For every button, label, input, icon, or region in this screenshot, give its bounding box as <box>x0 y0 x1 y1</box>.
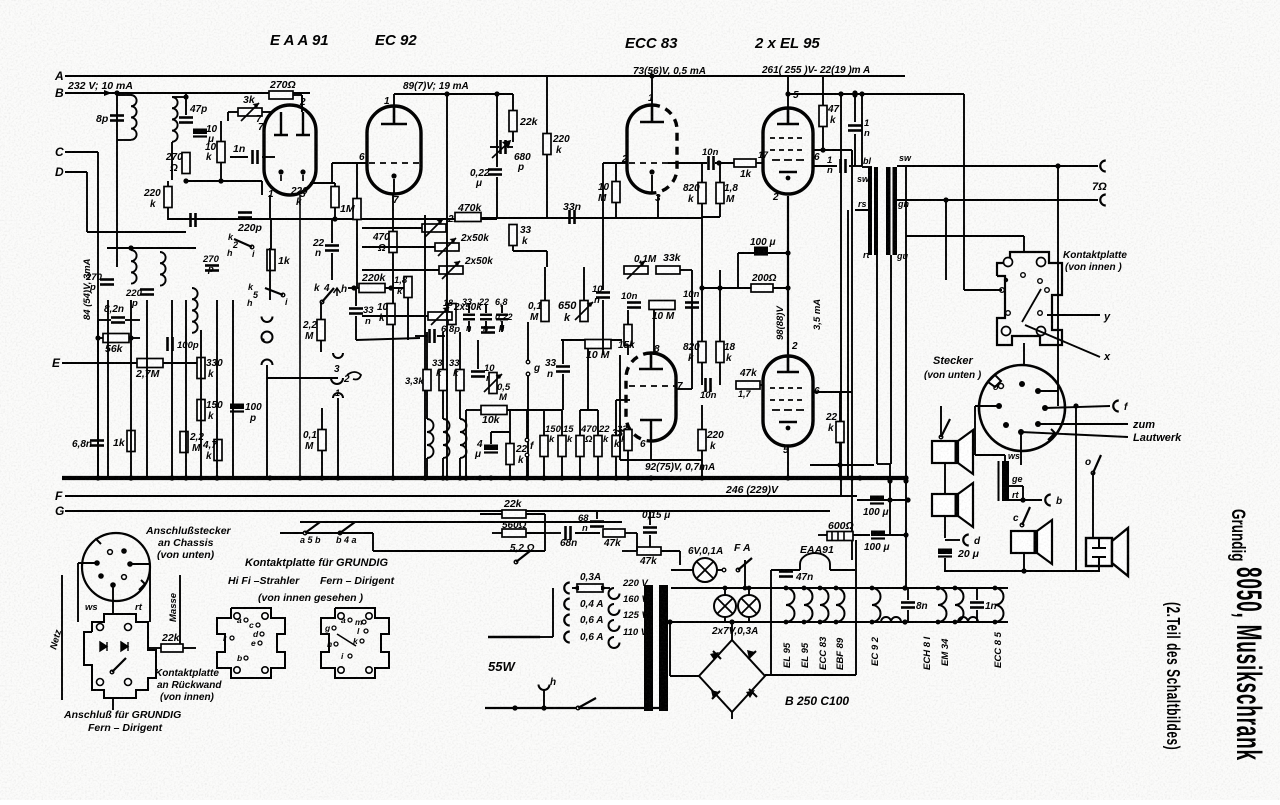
wire 47k e r <box>661 550 680 552</box>
lamp dial 2 <box>738 595 760 617</box>
capacitor 270p c <box>205 266 219 271</box>
resistor 1k S <box>267 250 275 271</box>
wire fuse r <box>603 587 610 589</box>
junction bus x616 <box>613 475 618 480</box>
wire D across <box>87 231 186 233</box>
wire 22k tone dn <box>509 465 511 478</box>
wire fuse l <box>572 587 577 589</box>
junction el95a k2 <box>785 285 790 290</box>
junction bus 217 <box>214 475 219 480</box>
heater ECH81 h bottom <box>936 620 941 625</box>
wire sg feed h <box>788 93 964 95</box>
heater ECC83 h bottom <box>818 620 823 625</box>
wire 1038 v <box>1038 390 1058 392</box>
capacitor 8.2n <box>111 318 125 323</box>
wire bank 0 dn <box>543 457 545 478</box>
contact plate pins big <box>1002 258 1046 336</box>
wire 100u line <box>738 252 788 254</box>
wire 447 v <box>446 94 448 478</box>
connector pin <box>1035 388 1041 394</box>
coil heater choke 1 <box>881 617 901 622</box>
wire bank tie4 <box>616 399 630 401</box>
transformer T-power core <box>644 585 668 711</box>
resistor 470ohm <box>389 232 397 253</box>
wire conn rt v <box>149 564 151 622</box>
resistor 47k sg <box>819 106 827 127</box>
diode D1 <box>100 642 107 651</box>
resistor 22M <box>317 320 325 341</box>
capacitor 1n g <box>841 159 846 173</box>
wire 497 v2 <box>496 177 498 217</box>
wire vdrop left 5 <box>200 330 202 476</box>
resistor 2.2M <box>180 432 188 453</box>
wire 220k down <box>167 208 169 220</box>
wire 33n k up <box>355 288 357 306</box>
wire 10n D l <box>668 162 707 164</box>
wire rail G <box>65 510 830 512</box>
wire o dn <box>1092 473 1094 538</box>
resistor 600 stripes <box>832 532 844 540</box>
wire eaa anode <box>301 95 303 107</box>
contact plate Rueckwand <box>84 614 156 698</box>
wire ec92 k dn <box>392 194 394 231</box>
wire 220k det2 up <box>334 183 336 187</box>
heater EL95 2 <box>804 588 813 622</box>
junction bus x270 <box>267 475 272 480</box>
jack ring <box>262 332 273 343</box>
wire 890 v <box>889 464 891 535</box>
wire 22n dn <box>331 253 333 280</box>
wire b drop 300a <box>301 95 303 112</box>
junction bus x906 <box>903 475 908 480</box>
wire 6.8p l <box>415 335 427 337</box>
wire rt b <box>1009 499 1042 501</box>
wire y465 <box>810 464 874 466</box>
resistor 10k tone <box>481 406 507 415</box>
capacitor 6.8n left <box>90 441 104 446</box>
wire 1058 v <box>1057 166 1059 406</box>
junction el95a k1 <box>785 250 790 255</box>
capacitor 10n B <box>627 303 641 308</box>
tube EL95b inner <box>777 356 799 372</box>
connector pin o <box>999 384 1004 389</box>
resistor 1M <box>353 199 361 220</box>
heater EBF89 h <box>836 588 845 622</box>
wire heater box bottom <box>765 674 856 676</box>
wire bank 3 dn <box>597 457 599 478</box>
wire 848 v <box>847 210 849 478</box>
junction bus x480 <box>477 475 482 480</box>
terminal tap <box>564 615 570 626</box>
tube EL95a U4 <box>763 108 813 194</box>
coil IF2 c <box>192 288 198 333</box>
wire bank 1 dn <box>561 457 563 478</box>
junction bus x598 <box>595 475 600 480</box>
wire ls3 dn <box>1023 553 1025 571</box>
wire 220k g2 r <box>385 287 405 289</box>
wire 22n row up <box>485 305 487 313</box>
wire 8n dn <box>907 610 909 622</box>
capacitor 100p osc <box>168 337 173 351</box>
wire bank 1 up <box>561 410 563 436</box>
wire g line <box>527 322 529 361</box>
contact plate HiFi pin <box>234 613 240 619</box>
wire col1 dn <box>442 458 444 478</box>
wire sw corner <box>372 533 374 551</box>
wire stecker zum <box>1038 423 1128 425</box>
contact plate Fern pin small <box>334 642 338 646</box>
wire 6,8n row dn <box>501 321 503 332</box>
resistor 33k bank <box>612 436 620 457</box>
junction B <box>114 90 119 95</box>
wire speaker line2 <box>897 199 1098 201</box>
wire 98 to bus <box>97 320 99 478</box>
arrow B <box>104 90 112 96</box>
junction 909 500 <box>905 497 910 502</box>
contact plate HiFi pin <box>262 613 268 619</box>
wire f line <box>526 410 528 439</box>
wire bridge dn <box>731 712 733 719</box>
wire vdrop left 6 <box>216 300 218 476</box>
wire 68n a r <box>575 532 600 534</box>
capacitor 10n C <box>685 303 699 308</box>
capacitor 47n h <box>779 572 793 577</box>
junction bus x131 <box>128 475 133 480</box>
wire col2 dn <box>459 458 461 478</box>
wire 8.2n r <box>125 319 140 321</box>
wire sw to right <box>373 550 545 552</box>
heater ECC83 h top <box>818 586 823 591</box>
title Grundig <box>1227 509 1249 561</box>
capacitor 22n <box>325 246 339 251</box>
wire 10M up <box>615 163 617 182</box>
wire plate top v <box>1023 236 1025 253</box>
wire ec92 k dn2 <box>392 253 394 478</box>
junction 890 500 <box>887 497 892 502</box>
junction bus x300 <box>297 475 302 480</box>
wire 217 ext <box>702 216 720 218</box>
wire 10M drop <box>587 349 589 410</box>
capacitor 10u C-el <box>193 129 207 137</box>
contact plate HiFi pin <box>234 667 240 673</box>
resistor 560 <box>502 529 526 537</box>
wire el95b g6 <box>813 391 852 393</box>
wire 89V line <box>394 93 513 95</box>
wire 8n up <box>907 588 909 600</box>
wire sw link <box>330 532 373 534</box>
capacitor 33n k <box>349 309 363 314</box>
wire 15k up <box>627 310 629 325</box>
wire 22k b r <box>526 513 545 515</box>
resistor 47k c <box>736 381 760 389</box>
contact plate Fern pin small <box>348 654 352 658</box>
fuse arrows <box>572 586 608 591</box>
wire el95a g6 <box>813 149 852 151</box>
wire stecker lautwerk <box>1021 432 1128 437</box>
resistor 220k a2 <box>543 134 551 155</box>
wire taps v <box>552 588 554 637</box>
wire 603 v <box>602 163 604 290</box>
resistor 33k col2 <box>456 370 464 391</box>
wire taps stub <box>540 636 553 638</box>
wire 877 v <box>876 255 878 464</box>
wire 220k a2 up <box>546 76 548 133</box>
resistor 470k <box>455 213 481 222</box>
switch o <box>1091 455 1101 475</box>
connector pin <box>1018 429 1024 435</box>
resistor 10k2 <box>387 304 395 325</box>
contact plate switch diag <box>1022 289 1041 322</box>
capacitor 100u b <box>871 531 885 539</box>
heater EL95 2 bottom <box>802 620 807 625</box>
heater EM34 h top <box>953 586 958 591</box>
wire 220k a2 dn <box>546 155 548 217</box>
switch FA <box>736 558 752 572</box>
capacitor 8p <box>110 116 124 121</box>
wire ecc83 anode <box>651 76 653 105</box>
junction bus x393 <box>390 475 395 480</box>
wire 68n a l <box>545 532 561 534</box>
wire ge tap <box>1009 485 1023 487</box>
wire mains l <box>488 636 540 639</box>
coil IF2 a <box>131 250 137 284</box>
wire 702 up2 <box>701 405 703 430</box>
wire ls2 dn <box>944 516 946 538</box>
wire 946 v <box>945 200 947 280</box>
wire vdrop left 0 <box>107 300 109 478</box>
contact plate Fern pin small <box>362 620 366 624</box>
wire plate R dn <box>112 698 114 710</box>
tube EL95a inner <box>777 108 799 124</box>
capacitor 0.22u 2 <box>481 328 495 333</box>
wire top link <box>185 93 187 115</box>
coil osc 1 <box>443 419 450 458</box>
junction 220k det2 <box>332 216 337 221</box>
capacitor 0.15u <box>643 528 657 533</box>
wire 600 line r <box>853 534 870 536</box>
capacitor 100u k <box>754 247 768 255</box>
wire 906 v <box>905 166 907 588</box>
wire rail D <box>65 171 87 173</box>
plate R pin <box>125 624 132 631</box>
wire ecc83b k <box>650 441 652 460</box>
wire bank tie3 <box>615 400 617 410</box>
coil IF2 b <box>160 252 166 286</box>
junction el95a top <box>785 91 790 96</box>
heater EM34 h <box>955 588 964 622</box>
wire C drop <box>97 152 99 478</box>
wire plate in1 <box>964 289 1002 291</box>
capacitor 270p a <box>100 280 114 285</box>
wire 56k l <box>98 337 103 339</box>
wire 100ub r <box>885 534 906 536</box>
wire sw a5b line <box>280 532 330 534</box>
resistor 22k tone <box>506 444 514 465</box>
jack2 sleeve <box>333 393 343 398</box>
wire masse v <box>179 575 181 648</box>
terminal tap <box>564 632 570 643</box>
transformer T-small core <box>998 461 1010 501</box>
resistor 33k col0 <box>423 370 431 391</box>
wire 22k n l <box>148 647 161 649</box>
wire 680p l <box>490 146 499 148</box>
capacitor 68n b <box>590 522 604 527</box>
resistor 2.7M <box>137 359 163 368</box>
heater EC92 h top <box>870 586 875 591</box>
capacitor 6.8p <box>430 329 435 343</box>
wire 33n row dn <box>468 321 470 332</box>
resistor 10M 2 <box>649 301 675 310</box>
resistor 330k <box>197 358 205 379</box>
resistor 10M grid <box>612 182 620 203</box>
wire 10M dn <box>615 203 617 217</box>
wire 270 right <box>293 94 302 96</box>
wire conn ws v <box>77 563 79 622</box>
wire 47k d r <box>625 532 637 534</box>
wire 6.8p r <box>437 335 445 337</box>
junction bus x186 <box>183 475 188 480</box>
connector pin <box>1042 405 1048 411</box>
capacitor 20u <box>938 549 952 557</box>
junction 56k r <box>128 335 133 340</box>
wire 466 v <box>465 410 467 478</box>
wire D drop <box>86 172 88 232</box>
wire y340 link <box>356 338 420 340</box>
speaker LS3 <box>1011 520 1052 564</box>
wire 497 v <box>496 94 498 167</box>
wire 720 v3 <box>719 270 721 342</box>
resistor 15k <box>624 325 632 346</box>
wire 0.15u up <box>649 511 651 525</box>
wire rail C <box>65 151 98 153</box>
resistor 1.8M <box>716 183 724 204</box>
jack2 tip <box>333 353 343 358</box>
contact plate Kontaktplatte top <box>997 252 1062 345</box>
wire es dn <box>1098 566 1100 571</box>
resistor 220k det <box>164 187 172 208</box>
tube EC92 U2 <box>367 106 421 194</box>
wire 220k up <box>167 181 169 187</box>
wire bridge l <box>670 675 699 677</box>
wire 33k dn <box>512 246 514 251</box>
wire d stub <box>945 539 960 541</box>
wire B drop <box>116 93 118 267</box>
wire coil2 drop <box>171 142 173 180</box>
contact plate HiFi <box>217 608 285 678</box>
plate R pin <box>125 679 132 686</box>
resistor 820k 2 <box>698 342 706 363</box>
junction 47k sg <box>820 147 825 152</box>
contact plate Fern pin small <box>364 629 368 633</box>
wire col1 mid <box>442 391 444 419</box>
contact plate HiFi pin small <box>244 656 248 660</box>
wire speaker line1 <box>897 165 1098 167</box>
heater ECC83 h <box>820 588 829 622</box>
wire rail B <box>65 92 310 94</box>
junction ls3 <box>1021 568 1026 573</box>
wire 33n row up <box>468 305 470 313</box>
wire bank 0 up <box>543 410 545 436</box>
tube EC92 inner <box>381 107 407 124</box>
wire 10k l <box>466 409 481 411</box>
coil IF1 secondary L2 <box>172 97 178 142</box>
capacitor 10n E <box>706 378 711 392</box>
wire coil2 top lead <box>172 96 186 98</box>
wire 22k b l <box>480 513 502 515</box>
junction sg feed <box>859 91 864 96</box>
wire 22k k up <box>839 392 841 421</box>
wire stecker f <box>1045 406 1110 408</box>
fuse 0.3A <box>577 584 603 592</box>
wire 720 v2 <box>719 204 721 217</box>
wire rs stub <box>855 209 872 211</box>
wire mid drop <box>261 181 263 195</box>
terminal b <box>1045 495 1051 506</box>
junction bus x788 <box>785 475 790 480</box>
heater EL95 1 top <box>784 586 789 591</box>
wire heater rail bottom <box>671 621 1008 623</box>
wire stecker pin7 <box>1020 432 1022 465</box>
wire el95b k dn <box>787 446 789 478</box>
junction bus x628 <box>625 475 630 480</box>
wire 545 up <box>544 267 546 300</box>
plate R pin <box>97 679 104 686</box>
tube ECC83a inner <box>640 105 664 122</box>
junction 906 bus <box>903 478 908 483</box>
wire ws up <box>1004 455 1006 461</box>
wire plate feed <box>906 235 1024 237</box>
wire pot h3 <box>362 269 439 271</box>
wire stecker left <box>975 405 999 407</box>
wire 15k dn <box>627 346 629 355</box>
junction bus x544 <box>541 475 546 480</box>
wire heater rail top <box>671 587 1008 589</box>
wire col1 up <box>442 332 444 370</box>
contact plate HiFi pin small <box>258 641 262 645</box>
wire 10k r <box>507 409 545 411</box>
jack tip 1 <box>262 317 273 323</box>
junction bus x172 <box>169 475 174 480</box>
wire vdrop left 3 <box>171 300 173 478</box>
wire 1.8k dn <box>407 298 409 340</box>
capacitor 33n row <box>463 315 475 320</box>
junction sp1 <box>1055 163 1060 168</box>
resistor 1k g3 <box>734 159 756 167</box>
coil heater choke 2 <box>958 617 978 622</box>
junction bus x510 <box>507 475 512 480</box>
contact plate pins small <box>1000 273 1050 316</box>
wire bank tie2 <box>580 409 598 411</box>
terminal d <box>963 535 969 546</box>
title 2.Teil des Schaltbildes <box>1162 602 1182 750</box>
contact plate Fern <box>321 608 389 678</box>
wire heater box l <box>770 570 772 675</box>
resistor 150k <box>197 400 205 421</box>
wire pot h4 <box>362 315 428 317</box>
resistor 600ohm <box>827 532 853 541</box>
junction 890 bus <box>887 478 892 483</box>
potentiometer 0.5M <box>484 373 502 394</box>
speaker electrostatic <box>1086 528 1128 576</box>
wire 10k up <box>220 121 222 142</box>
wire 47k r <box>760 384 763 386</box>
wire coil1 bottom <box>117 139 131 141</box>
terminal f <box>1113 401 1118 412</box>
heater EL95 1 <box>786 588 795 622</box>
terminal out1 <box>1100 161 1106 172</box>
wire IF2 top <box>107 247 196 249</box>
wire 4u up <box>490 432 492 444</box>
